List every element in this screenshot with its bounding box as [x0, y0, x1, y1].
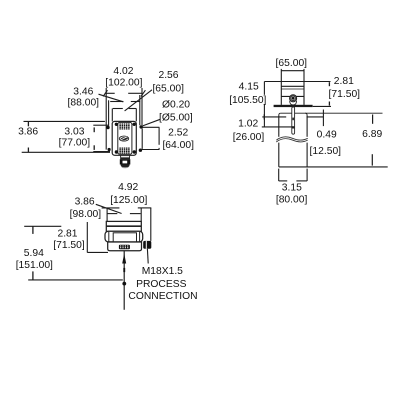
- wire: 4.02 dimension line left: [105, 92, 115, 94]
- svg-text:[77.00]: [77.00]: [59, 138, 91, 149]
- svg-text:3.86: 3.86: [75, 196, 95, 207]
- wire: 3.86 bottom extension line: [22, 151, 110, 153]
- wire: 3.15 right extension vertical: [306, 169, 308, 181]
- connector dark band: [120, 158, 130, 160]
- wire: 2.52 dimension vertical lower stub: [158, 148, 160, 150]
- svg-text:[26.00]: [26.00]: [233, 132, 265, 143]
- svg-text:5.94: 5.94: [24, 248, 44, 259]
- svg-text:CONNECTION: CONNECTION: [128, 291, 197, 302]
- conduit white stripe: [146, 241, 147, 249]
- connector cap rim: [122, 166, 129, 169]
- wire: 2.56 right extension vertical: [135, 109, 137, 122]
- wire: 3.15 dim line right: [296, 180, 307, 182]
- wire: pipe right wall: [306, 115, 308, 167]
- svg-text:[98.00]: [98.00]: [70, 209, 102, 220]
- svg-text:Ø0.20: Ø0.20: [162, 100, 190, 111]
- wire: left extension vertical (body): [106, 208, 108, 222]
- svg-text:[105.50]: [105.50]: [229, 95, 266, 106]
- node: 3.03 bottom tick: [93, 145, 95, 150]
- svg-text:[125.00]: [125.00]: [110, 195, 147, 206]
- svg-text:2.81: 2.81: [57, 228, 77, 239]
- screw head ring: [291, 96, 296, 101]
- corner screw TR: [133, 123, 136, 126]
- wire: 4.92 dim line right: [138, 207, 152, 209]
- svg-text:[71.50]: [71.50]: [53, 240, 85, 251]
- probe rod upper mark: [292, 118, 294, 121]
- body flange face: [113, 233, 136, 242]
- probe rod lower mark: [292, 126, 294, 128]
- svg-text:[88.00]: [88.00]: [68, 98, 100, 109]
- svg-text:6.89: 6.89: [362, 129, 382, 140]
- wire: 3.15 left extension vertical: [278, 169, 280, 181]
- wire: leader from 3.86 text: [96, 204, 122, 213]
- wire: 4.15 dim vertical upper: [263, 82, 265, 95]
- wire: box seam 3 (light): [281, 88, 304, 90]
- wire: 5.94/2.81 top ref line: [24, 225, 61, 227]
- body top box: [106, 221, 141, 231]
- wire: 3.46 dimension line left: [110, 101, 123, 103]
- svg-text:4.02: 4.02: [113, 66, 133, 77]
- body flange left cap line: [108, 232, 110, 242]
- node: 3.86 bottom tick: [27, 148, 29, 153]
- process connection arrowhead: [122, 254, 126, 264]
- node: 3.86 top tick: [27, 121, 29, 126]
- wire: right extension vertical outer (4.02): [141, 88, 143, 125]
- wire: 2.52 bottom extension line: [142, 149, 160, 151]
- wire: 3.03 bottom extension line: [93, 151, 110, 153]
- wire: 2.81 bottom tick: [328, 102, 330, 106]
- wire: 3.86 dim line right: [130, 213, 141, 215]
- wire: 2.81 bottom ref extension (plate bottom extended right): [313, 105, 331, 107]
- svg-text:[151.00]: [151.00]: [16, 260, 53, 271]
- mounting hole top-right: [139, 125, 142, 128]
- process connector neck (front view): [121, 155, 130, 157]
- wire: pipe left wall: [278, 115, 280, 167]
- connector hex block: [120, 159, 131, 164]
- wire: 2.56 left extension vertical: [111, 109, 113, 122]
- connector bottom cap: [121, 165, 130, 168]
- wire: right bracket edge vertical: [141, 128, 143, 149]
- probe rod: [292, 107, 295, 134]
- wire: 2.81 bottom ref line: [87, 251, 108, 253]
- wire: box shoulder long line (4.15/2.81 top ref): [264, 81, 330, 83]
- wire: 2.81 dim vertical: [86, 222, 88, 253]
- svg-text:3.86: 3.86: [18, 126, 38, 137]
- wire: 2.52 top extension line: [141, 126, 160, 128]
- switch body outline (front view): [112, 121, 136, 155]
- node: 3.03 top tick: [93, 127, 95, 132]
- pipe break wavy line upper: [276, 137, 307, 140]
- wire: right extension vertical (body): [140, 208, 142, 221]
- svg-text:[Ø5.00]: [Ø5.00]: [159, 112, 193, 123]
- wire: 2.56 dimension line left: [113, 108, 123, 110]
- wire: 5.94 bottom tick: [32, 271, 34, 280]
- wire: 3.86 dim line left: [107, 213, 117, 215]
- wire: leader from 3.46 text: [99, 94, 124, 102]
- svg-text:0.49: 0.49: [317, 129, 337, 140]
- svg-text:[64.00]: [64.00]: [162, 140, 194, 151]
- wire: leader from 2.56/[65.00] text: [125, 90, 152, 111]
- body top seam: [106, 225, 141, 227]
- logo swoosh: [120, 137, 128, 140]
- wire: 3.15 dim line left: [279, 180, 288, 182]
- wire: 1.02 dim vertical: [263, 117, 265, 127]
- wire: left extension vertical inner (3.46): [108, 100, 110, 126]
- wire: 0.49 leader vertical: [322, 110, 324, 127]
- pipe break white band: [278, 137, 308, 143]
- svg-text:[65.00]: [65.00]: [276, 58, 308, 69]
- corner screw TL: [115, 123, 118, 126]
- svg-text:4.15: 4.15: [239, 81, 259, 92]
- svg-text:[65.00]: [65.00]: [152, 84, 184, 95]
- wire: box right wall / extension: [303, 69, 305, 105]
- body flange outer: [105, 231, 143, 242]
- switch inner panel: [118, 122, 132, 154]
- probe leader vertical line: [123, 251, 125, 310]
- wire: 4.92 dim line left: [102, 207, 120, 209]
- svg-text:M18X1.5: M18X1.5: [142, 266, 183, 277]
- wire: 6.89 bottom tick: [371, 154, 373, 165]
- side view vent block: [119, 245, 130, 250]
- wire: pipe bottom edge + extension: [279, 166, 388, 168]
- svg-text:2.52: 2.52: [168, 128, 188, 139]
- wire: 0.49 pointer line: [307, 116, 324, 118]
- probe tip dot: [122, 282, 126, 286]
- wire: 2.52 dimension vertical: [158, 127, 160, 145]
- svg-text:4.92: 4.92: [118, 182, 138, 193]
- svg-text:3.15: 3.15: [282, 182, 302, 193]
- wire: box left wall / extension: [280, 69, 282, 105]
- svg-text:[12.50]: [12.50]: [310, 146, 342, 157]
- wire: [65.00] dim line: [281, 70, 304, 72]
- wire: left extension vertical outer (4.02): [105, 88, 107, 150]
- svg-text:[80.00]: [80.00]: [276, 195, 308, 206]
- svg-text:[71.50]: [71.50]: [329, 89, 361, 100]
- wire: 3.46 dimension line right: [131, 101, 140, 103]
- wire: 4.15 dim vertical lower: [263, 104, 265, 117]
- body flange right cap line: [139, 232, 141, 242]
- side-view body top box: [105, 221, 143, 250]
- mounting hole top-left: [106, 126, 109, 129]
- wire: pipe top edge + 6.89 top extension: [281, 112, 383, 114]
- svg-text:[102.00]: [102.00]: [105, 77, 142, 88]
- wire: 4.15/1.02 bottom ref line: [262, 116, 286, 118]
- wire: 2.56 dimension line right: [129, 108, 137, 110]
- mounting plate (top-right view): [274, 105, 313, 107]
- svg-text:1.02: 1.02: [238, 119, 258, 130]
- wire: pipe top left corner: [279, 113, 281, 115]
- mounting hole bottom-right: [139, 149, 142, 152]
- wire: 4.02 dimension line right: [128, 92, 142, 94]
- wire: leader from Ø0.20 text to top-right hole: [142, 119, 160, 126]
- mounting hole bottom-left: [108, 148, 111, 151]
- corner screw BR: [133, 150, 136, 153]
- svg-text:2.81: 2.81: [334, 76, 354, 87]
- arrow second mark: [123, 268, 125, 272]
- screw head center: [292, 97, 295, 100]
- conduit connector: [143, 241, 151, 249]
- corner screw BL: [115, 150, 118, 153]
- logo oval: [119, 136, 128, 141]
- side view vent white cells: [120, 245, 128, 248]
- 3.15 bracket: [279, 169, 307, 181]
- wire: box seam 2: [281, 85, 304, 87]
- wire: 1.02 bottom ref line: [262, 126, 292, 128]
- pipe break wavy line lower: [276, 139, 307, 142]
- wire: 3.86 top extension line (body top extended left): [24, 120, 105, 122]
- svg-text:3.03: 3.03: [64, 126, 84, 137]
- wire: 2.81 top tick: [328, 82, 330, 86]
- screw washer arc: [290, 101, 297, 105]
- connector block window: [123, 161, 128, 164]
- body lower box: [108, 242, 142, 251]
- wire: 6.89 top tick: [372, 115, 374, 124]
- wire: 5.94 top tick: [32, 226, 34, 234]
- wire: pipe top right corner: [305, 113, 307, 115]
- wire: 3.03 top extension line: [93, 124, 108, 126]
- svg-text:3.46: 3.46: [73, 86, 93, 97]
- svg-text:2.56: 2.56: [158, 70, 178, 81]
- screw head outer: [290, 95, 297, 102]
- wire: far right extension vertical (conduit): [150, 208, 152, 241]
- wire: leader to M18X1.5 text: [146, 249, 149, 264]
- svg-text:PROCESS: PROCESS: [136, 279, 186, 290]
- wire: box bottom seam: [281, 95, 304, 97]
- wire: 5.94 bottom ref line: [28, 279, 123, 281]
- wire: right extension vertical inner (3.46): [139, 95, 141, 125]
- logo swoosh white slash: [121, 137, 127, 140]
